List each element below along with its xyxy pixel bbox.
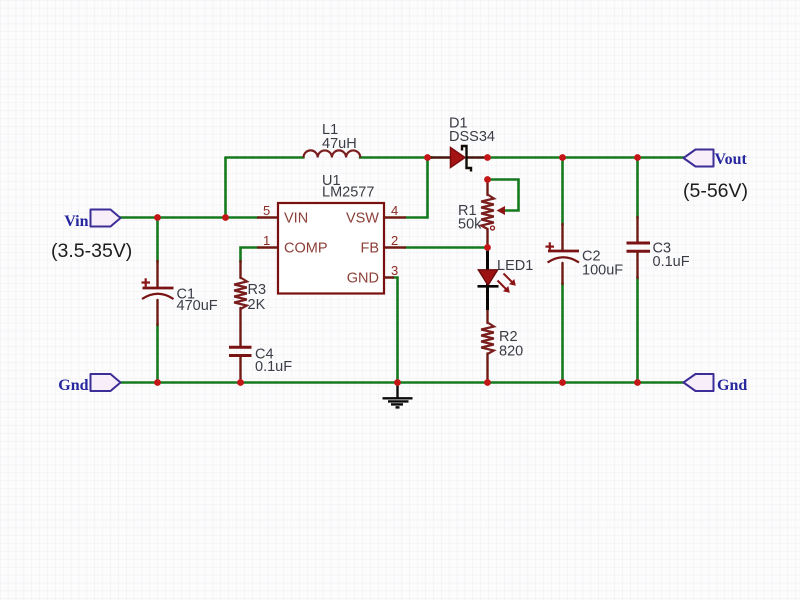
port Vout: [684, 150, 714, 167]
svg-text:2K: 2K: [248, 297, 266, 313]
svg-text:LM2577: LM2577: [322, 185, 374, 201]
capacitor C3 0.1uF: [627, 243, 651, 251]
capacitor C1 (polarized 470uF): [142, 278, 174, 299]
wire ground rail: [120, 381, 684, 384]
svg-text:1: 1: [263, 233, 270, 248]
wire R1 wiper tap: [488, 180, 519, 211]
junction gnd U1: [394, 379, 401, 386]
svg-text:0.1uF: 0.1uF: [255, 359, 292, 375]
pin stub R2 top: [486, 308, 488, 323]
pin stub C4 bottom: [239, 357, 241, 383]
wire top rail D1 cathode to Vout port: [485, 156, 684, 159]
junction C3 top: [634, 154, 641, 161]
LED LED1: [478, 248, 516, 311]
svg-text:Vout: Vout: [715, 151, 748, 168]
svg-text:50k: 50k: [458, 217, 482, 233]
svg-text:Gnd: Gnd: [717, 377, 747, 394]
pin stub C1 bottom: [156, 300, 158, 325]
wire C2 bottom: [561, 283, 564, 383]
wire C3 bottom: [636, 277, 639, 383]
svg-text:FB: FB: [360, 241, 379, 257]
ground symbol: [383, 383, 413, 407]
svg-text:5: 5: [263, 203, 270, 218]
wire GND pin drop: [393, 278, 398, 383]
resistor R3: [234, 278, 247, 310]
svg-text:820: 820: [499, 344, 523, 360]
junction Vin/C1: [154, 214, 161, 221]
junction VSW/top rail: [424, 154, 431, 161]
capacitor C4 0.1uF: [229, 347, 252, 355]
svg-text:VSW: VSW: [346, 211, 379, 227]
svg-text:VIN: VIN: [284, 211, 308, 227]
wire C3 top: [636, 158, 639, 219]
wire FB to divider: [405, 246, 488, 249]
pin stub D1 anode: [429, 156, 451, 159]
svg-text:100uF: 100uF: [582, 263, 623, 279]
diode D1 (Schottky): [451, 146, 472, 172]
svg-text:(3.5-35V): (3.5-35V): [51, 240, 132, 262]
wire C1 bottom: [156, 324, 159, 383]
junction gnd R2: [484, 379, 491, 386]
svg-text:GND: GND: [347, 271, 379, 287]
svg-text:LED1: LED1: [497, 258, 533, 274]
svg-text:COMP: COMP: [284, 241, 328, 257]
port Gnd left: [91, 374, 121, 391]
wire COMP to R3: [241, 248, 259, 263]
port Vin: [91, 210, 121, 227]
junction gnd C1: [154, 379, 161, 386]
svg-text:0.1uF: 0.1uF: [653, 254, 690, 270]
resistor R2: [481, 323, 494, 355]
wire Vin horizontal rail: [120, 216, 258, 219]
svg-text:4: 4: [391, 203, 398, 218]
pin stub U1 VIN pin 5: [258, 216, 278, 218]
junction gnd C2: [559, 379, 566, 386]
pin stub R2 bottom: [486, 354, 488, 383]
pin stub C3 bottom: [636, 252, 638, 278]
svg-text:470uF: 470uF: [177, 298, 218, 314]
wire C2 top: [561, 158, 564, 226]
junction FB node: [484, 244, 491, 251]
wire C1 top riser: [156, 218, 159, 263]
pin stub U1 COMP pin 1: [258, 246, 278, 248]
pin stub D1 cathode: [467, 156, 486, 159]
pin stub U1 GND pin 3: [384, 276, 393, 278]
svg-text:R3: R3: [248, 282, 267, 298]
pin stub R1 bottom: [486, 229, 488, 248]
junction gnd C4: [237, 379, 244, 386]
pin stub C1 top: [156, 261, 158, 287]
pin stub C2 bottom: [561, 263, 563, 284]
junction gnd C3: [634, 379, 641, 386]
resistor R1 (potentiometer 50k): [481, 195, 505, 231]
svg-text:2: 2: [391, 233, 398, 248]
svg-text:47uH: 47uH: [322, 136, 357, 152]
pin stub U1 VSW pin 4: [384, 216, 405, 218]
junction R1 top tap: [484, 176, 491, 183]
wire top rail L1 to D1: [360, 156, 432, 159]
svg-text:3: 3: [391, 263, 398, 278]
wire top rail left of L1: [226, 156, 304, 159]
pin stub C3 top: [636, 217, 638, 242]
junction D1 cathode: [484, 154, 491, 161]
wire R3 to C4: [239, 308, 241, 346]
capacitor C2 (polarized 100uF): [546, 242, 580, 262]
svg-text:(5-56V): (5-56V): [683, 180, 748, 202]
op-amp U1 LM2577 body: [278, 203, 384, 294]
inductor L1: [304, 150, 361, 157]
pin stub R1 top: [486, 180, 488, 196]
pin stub U1 FB pin 2: [384, 246, 405, 248]
svg-text:Gnd: Gnd: [58, 377, 88, 394]
svg-text:DSS34: DSS34: [449, 129, 495, 145]
svg-text:Vin: Vin: [64, 213, 88, 230]
junction C2 top: [559, 154, 566, 161]
wire VSW riser: [405, 158, 428, 218]
junction Vin/L1: [222, 214, 229, 221]
port Gnd right: [684, 374, 714, 391]
pin stub C2 top: [561, 224, 563, 250]
wire L1 branch riser: [224, 158, 227, 218]
pin stub R3 top: [239, 261, 241, 278]
